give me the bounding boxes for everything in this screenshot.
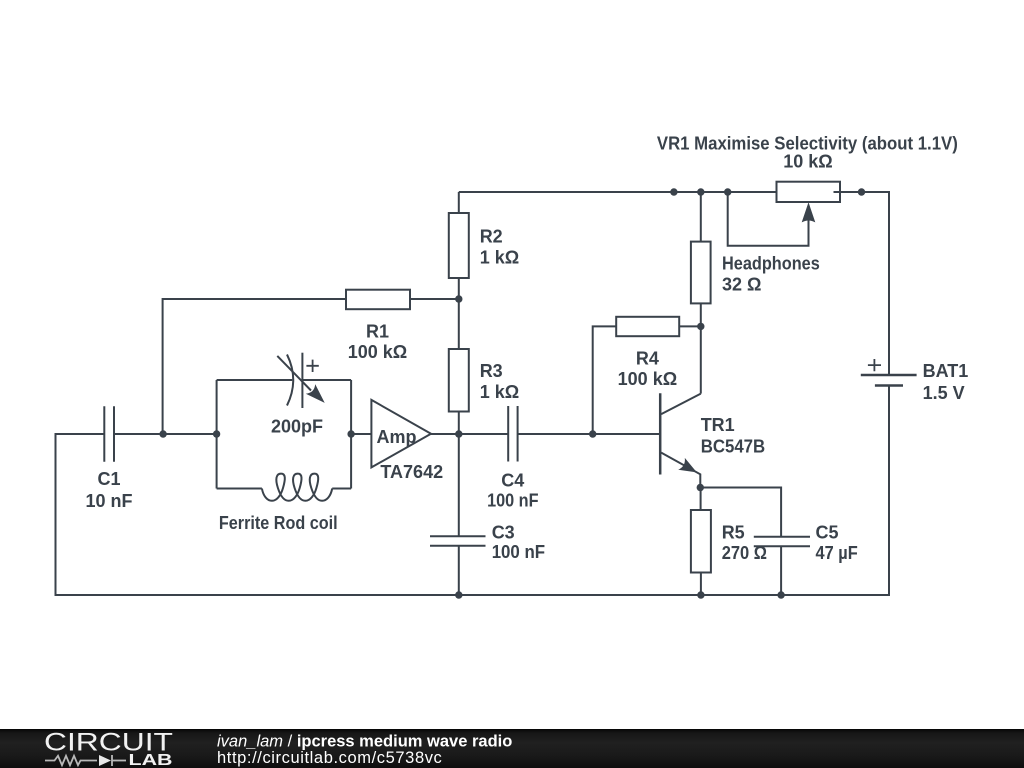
svg-text:VR1 Maximise Selectivity (abou: VR1 Maximise Selectivity (about 1.1V) — [657, 133, 958, 153]
svg-text:10 nF: 10 nF — [85, 491, 132, 511]
wire: R2 top stub — [458, 192, 460, 213]
capacitor C4 — [508, 406, 517, 462]
svg-text:R2: R2 — [480, 226, 503, 246]
capacitor C1 — [104, 406, 114, 462]
resistor: headphones — [691, 242, 711, 304]
node: top rail junction A — [670, 188, 677, 195]
node: amp output / R3 / C3 / C4 junction — [455, 430, 462, 437]
node: R1/R2/R3 junction — [455, 295, 462, 302]
node: tank right / amp input junction — [347, 430, 354, 437]
svg-text:R1: R1 — [366, 321, 389, 341]
VR1 wiper arrow — [802, 202, 816, 222]
svg-text:C3: C3 — [492, 523, 515, 543]
node: bottom rail / C5 junction — [777, 591, 784, 598]
svg-text:C4: C4 — [501, 471, 524, 491]
node: collector / R4 junction — [697, 323, 704, 330]
svg-text:100 nF: 100 nF — [487, 491, 538, 511]
svg-text:Amp: Amp — [377, 427, 417, 447]
svg-text:32 Ω: 32 Ω — [722, 275, 761, 295]
svg-text:R3: R3 — [480, 361, 503, 381]
wire: left loop C1-left / bottom rail / right riser to battery minus — [56, 386, 890, 596]
variable capacitor arrow diagonal — [277, 356, 311, 391]
svg-text:1 kΩ: 1 kΩ — [480, 247, 519, 267]
transistor Q1 TR1 — [659, 393, 662, 474]
wire: R1 horizontal and left drop — [163, 299, 459, 434]
node: base / R4 junction — [589, 430, 596, 437]
svg-text:C5: C5 — [816, 522, 839, 542]
node: bottom rail / R5 junction — [697, 591, 704, 598]
wire: R2 bottom to node, R3 top — [458, 278, 460, 349]
wire: headphones bottom to collector corner — [700, 303, 702, 393]
capacitor C3 — [458, 434, 460, 595]
svg-text:1 kΩ: 1 kΩ — [480, 382, 519, 402]
wire: top rail from R2 corner to VR1 left terminal — [459, 191, 777, 193]
wire: amp output to C4 left plate — [431, 433, 508, 435]
VR1 wiper return wire — [728, 192, 809, 246]
potentiometer VR1 — [777, 182, 841, 202]
svg-text:47 µF: 47 µF — [816, 543, 858, 563]
inductor: ferrite rod coil — [262, 474, 332, 501]
variable capacitor curved plate — [287, 355, 293, 406]
resistor R4 — [616, 317, 679, 336]
battery BAT1 plates — [861, 374, 917, 377]
svg-text:200pF: 200pF — [271, 416, 323, 436]
svg-text:Headphones: Headphones — [722, 254, 820, 274]
resistor R2 — [449, 213, 469, 278]
CircuitLab logo — [44, 729, 173, 768]
svg-text:10 kΩ: 10 kΩ — [783, 152, 832, 172]
variable capacitor 200pF: straight plate — [301, 353, 303, 408]
svg-text:R4: R4 — [636, 348, 659, 368]
tank circuit box (L, C parallel) — [217, 380, 352, 489]
wire: tank right to amp input — [351, 433, 371, 435]
node: tank left junction — [213, 430, 220, 437]
footer bar — [0, 729, 1024, 768]
svg-text:ivan_lam / ipcress medium wave: ivan_lam / ipcress medium wave radio — [217, 733, 512, 751]
svg-text:TA7642: TA7642 — [380, 462, 443, 482]
node: VR1 right terminal junction — [858, 188, 865, 195]
svg-text:LAB: LAB — [129, 752, 173, 768]
svg-text:100 kΩ: 100 kΩ — [618, 369, 677, 389]
wire: R4 left leg — [593, 326, 617, 434]
node: top rail / headphones junction — [697, 188, 704, 195]
wire: battery plus up, top rail corner to VR1 right terminal — [834, 192, 890, 375]
resistor R5 — [691, 510, 711, 573]
logo resistor + diode glyph — [45, 755, 126, 766]
svg-text:BAT1: BAT1 — [923, 361, 969, 381]
svg-text:100 nF: 100 nF — [492, 542, 545, 562]
wire: R3 bottom to main line — [458, 412, 460, 435]
node: bottom rail / C3 junction — [455, 591, 462, 598]
svg-text:C1: C1 — [97, 469, 120, 489]
svg-text:http://circuitlab.com/c5738vc: http://circuitlab.com/c5738vc — [217, 749, 442, 767]
svg-text:1.5 V: 1.5 V — [923, 383, 965, 403]
amplifier Amp TA7642 triangle — [371, 400, 431, 468]
svg-text:TR1: TR1 — [701, 415, 735, 435]
variable capacitor plus — [306, 360, 318, 372]
node: C1/R1 junction — [159, 430, 166, 437]
wire: C4 right plate to transistor base — [518, 433, 660, 435]
svg-text:100 kΩ: 100 kΩ — [348, 342, 407, 362]
node: top rail / wiper return junction — [724, 188, 731, 195]
capacitor C5 — [754, 537, 810, 547]
svg-text:R5: R5 — [722, 522, 745, 542]
svg-text:Ferrite Rod coil: Ferrite Rod coil — [219, 513, 338, 533]
svg-text:BC547B: BC547B — [701, 436, 766, 456]
node: emitter / R5 / C5 junction — [697, 484, 704, 491]
battery plus sign — [868, 359, 881, 371]
wire: C1 right plate to tank left — [114, 433, 217, 435]
resistor R1 — [346, 290, 410, 310]
resistor R3 — [449, 349, 469, 412]
wire: emitter node to R5 and C5 — [700, 488, 781, 537]
wire: headphones top stub from rail — [700, 192, 702, 242]
